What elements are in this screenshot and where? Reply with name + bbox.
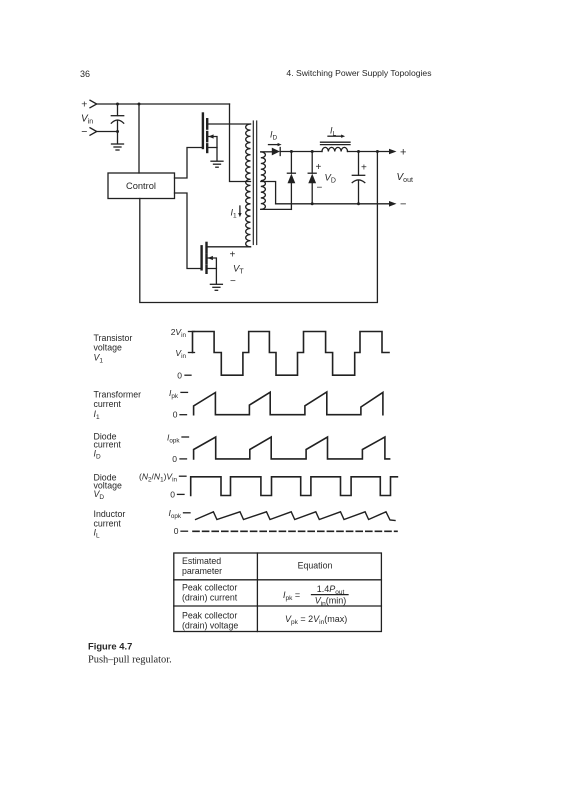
wire output rail plus (348, 147, 407, 159)
label VT plus (230, 250, 236, 261)
waveform 4 trace diode voltage (191, 477, 398, 496)
svg-text:0: 0 (172, 454, 177, 464)
running head title (286, 68, 431, 78)
wire feedback loop (140, 152, 378, 303)
svg-text:−: − (400, 199, 406, 211)
svg-text:+: + (230, 250, 236, 261)
svg-text:I1: I1 (231, 208, 238, 220)
svg-text:Peak collector: Peak collector (182, 610, 237, 620)
waveform 3 trace diode current (194, 437, 390, 459)
svg-text:I1: I1 (94, 409, 100, 421)
svg-text:current: current (94, 518, 122, 528)
waveform 3 labels (94, 432, 122, 461)
input terminal - (81, 126, 96, 138)
svg-text:Vin: Vin (81, 114, 93, 126)
label VT (233, 264, 244, 276)
svg-text:Vpk = 2Vin(max): Vpk = 2Vin(max) (285, 614, 347, 626)
svg-text:4. Switching Power Supply Topo: 4. Switching Power Supply Topologies (286, 68, 431, 78)
svg-text:voltage: voltage (94, 343, 122, 353)
svg-text:VD: VD (325, 173, 336, 185)
svg-text:(drain) voltage: (drain) voltage (182, 621, 238, 631)
ground input (112, 144, 124, 150)
wire top input rail (97, 103, 230, 105)
svg-text:V1: V1 (94, 353, 104, 365)
table frame (174, 553, 382, 632)
table row 2 fraction bar (312, 594, 349, 596)
label Vin (81, 114, 93, 126)
wire Q1 drain to primary top (208, 123, 250, 125)
waveform 1 labels (94, 333, 133, 365)
waveform 2 labels (94, 389, 142, 421)
wire control feed (138, 104, 140, 173)
svg-text:Transformer: Transformer (94, 389, 142, 399)
svg-text:+: + (400, 147, 406, 159)
wire gate drive top (175, 148, 202, 179)
waveform 1 axis ticks (171, 327, 195, 380)
transistor Q2 (202, 243, 217, 284)
wire secondary rail to inductor (280, 151, 322, 153)
svg-text:0: 0 (173, 410, 178, 420)
label VD (325, 173, 336, 185)
diode D1 (272, 148, 280, 156)
wire secondary bottom (261, 208, 292, 210)
junction dot input cap top (116, 103, 119, 106)
junction dot control feed (138, 103, 141, 106)
waveform 2 axis ticks (169, 388, 188, 420)
capacitor C-in (111, 104, 123, 144)
transformer T1 core (253, 121, 256, 245)
svg-text:Estimated: Estimated (182, 556, 221, 566)
waveform 5 labels (94, 509, 126, 539)
svg-text:current: current (94, 399, 122, 409)
svg-text:+: + (316, 162, 322, 173)
svg-text:(N2/N1)Vin: (N2/N1)Vin (139, 471, 177, 483)
svg-text:Vout: Vout (397, 172, 413, 184)
wire center-tap feed (230, 104, 251, 182)
svg-text:IL: IL (94, 528, 100, 540)
label Vout (397, 172, 413, 184)
wire output rail minus (276, 199, 407, 211)
label VD plus (316, 162, 322, 173)
diode D2 (287, 152, 295, 210)
svg-text:+: + (81, 99, 87, 111)
label VD minus (317, 183, 323, 194)
svg-text:36: 36 (80, 69, 90, 79)
svg-text:−: − (317, 183, 323, 194)
label VT minus (230, 276, 236, 287)
svg-text:Control: Control (126, 181, 156, 191)
svg-text:0: 0 (174, 526, 179, 536)
svg-text:Iopk: Iopk (167, 432, 180, 444)
wire secondary top to D1 (261, 151, 272, 153)
svg-text:0: 0 (177, 370, 182, 380)
svg-text:Figure 4.7: Figure 4.7 (88, 641, 132, 652)
svg-text:0: 0 (170, 489, 175, 499)
diode D3 (308, 152, 316, 204)
page number (80, 69, 90, 79)
junction dot D3 top (311, 150, 314, 153)
svg-text:parameter: parameter (182, 566, 222, 576)
ground Q2 (210, 284, 222, 290)
svg-text:Transistor: Transistor (94, 333, 133, 343)
label ID with arrow (269, 130, 282, 147)
waveform 1 trace transistor voltage (193, 332, 390, 376)
svg-text:−: − (81, 126, 87, 138)
junction dot cap top (357, 150, 360, 153)
waveform 4 axis ticks (139, 471, 186, 499)
wire gate drive bottom (175, 193, 201, 269)
svg-text:Ipk: Ipk (169, 388, 179, 400)
junction dot D3 bottom (311, 202, 314, 205)
waveform 5 axis ticks (168, 508, 190, 536)
svg-text:+: + (361, 163, 367, 174)
ground Q1 (211, 161, 223, 167)
svg-text:ID: ID (94, 449, 101, 461)
waveform 5 trace inductor current (196, 512, 395, 521)
svg-text:2Vin: 2Vin (171, 327, 187, 339)
junction dot cap bottom (357, 202, 360, 205)
label IL with arrow (328, 126, 345, 138)
svg-text:VT: VT (233, 264, 244, 276)
wire minus input (97, 131, 118, 133)
waveform 3 axis ticks (167, 432, 189, 464)
capacitor C-out (352, 152, 367, 204)
junction dot D2 top (290, 150, 293, 153)
label I1 with arrow (231, 206, 242, 220)
table header text (182, 556, 332, 576)
waveform 5 zero dashed line (193, 530, 397, 532)
transformer T1 secondary winding (261, 152, 266, 209)
svg-text:Ipk =: Ipk = (283, 590, 300, 602)
junction dot feedback top (376, 150, 379, 153)
junction dot input cap bottom (116, 130, 119, 133)
svg-text:−: − (230, 276, 236, 287)
svg-text:ID: ID (270, 130, 278, 142)
svg-text:Iopk: Iopk (168, 508, 181, 520)
svg-text:Push–pull regulator.: Push–pull regulator. (88, 655, 172, 666)
waveform 4 labels (94, 472, 122, 501)
figure caption (88, 641, 172, 666)
wire center tap return (261, 182, 276, 204)
svg-text:current: current (94, 439, 122, 449)
svg-text:VD: VD (94, 489, 105, 501)
svg-text:Equation: Equation (298, 561, 333, 571)
svg-text:Vin: Vin (175, 348, 186, 360)
waveform 2 trace transformer current (194, 392, 383, 415)
svg-text:Peak collector: Peak collector (182, 583, 237, 593)
table row 3 text (182, 610, 347, 630)
wire Q2 drain to primary bottom (208, 246, 251, 248)
transistor Q1 (203, 114, 217, 161)
transformer T1 primary winding (246, 124, 251, 247)
input terminal + (81, 99, 96, 111)
table row 2 text (182, 583, 346, 608)
control block (108, 173, 175, 199)
inductor L1 (321, 142, 351, 151)
svg-text:(drain) current: (drain) current (182, 593, 238, 603)
